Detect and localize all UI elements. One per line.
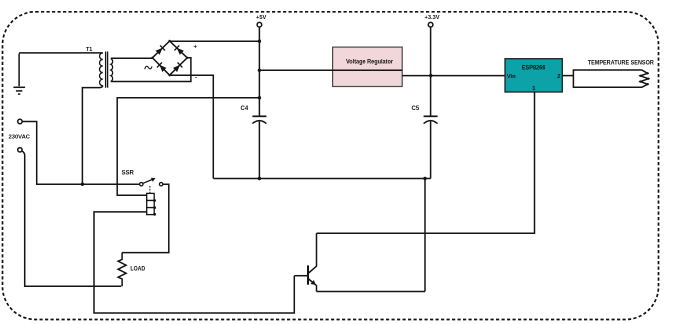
junction	[258, 177, 261, 180]
wire 230VAC live to SSR switch	[22, 122, 139, 185]
wire VR output to ESP Vin	[402, 75, 505, 77]
SSR coil	[147, 193, 156, 215]
node +5V	[256, 15, 266, 27]
svg-text:+: +	[194, 45, 198, 51]
wire bridge plus to +5V rail	[170, 40, 260, 42]
ground	[13, 54, 25, 95]
diode upper-left	[156, 45, 166, 54]
svg-text:Voltage Regulator: Voltage Regulator	[346, 59, 394, 66]
junction	[81, 183, 84, 186]
wire SSR switch to LOAD top	[122, 184, 169, 252]
diode lower-left	[157, 63, 166, 73]
svg-text:2: 2	[557, 74, 560, 80]
wire base return to SSR coil	[94, 212, 294, 313]
transistor Q1	[294, 233, 316, 291]
SSR switch	[122, 171, 163, 194]
junction	[258, 40, 261, 43]
svg-text:Vin: Vin	[507, 74, 516, 80]
svg-text:+3.3V: +3.3V	[425, 15, 440, 21]
svg-text:C4: C4	[241, 106, 249, 112]
junction	[429, 74, 432, 77]
node +3.3V	[425, 15, 440, 27]
wire emitter to down-tap	[317, 291, 426, 293]
diode upper-right	[174, 45, 184, 54]
junction	[423, 177, 426, 180]
wire T1 primary bottom to AC line	[82, 86, 102, 185]
diode lower-right	[173, 63, 182, 73]
svg-text:LOAD: LOAD	[130, 265, 145, 272]
wire +5V rail	[258, 27, 260, 116]
wire VR input from +5V rail	[259, 69, 402, 71]
bridge vertex dots	[151, 40, 188, 77]
AC squiggle	[145, 66, 152, 69]
wire T1 secondary top to bridge AC1	[111, 57, 153, 59]
svg-text:C5: C5	[412, 106, 420, 112]
bridge rectifier	[152, 41, 187, 75]
wire ground rail	[213, 178, 430, 180]
node 230VAC	[9, 119, 31, 152]
wire SSR feed from +5V rail	[117, 98, 259, 196]
wire +3.3V rail	[430, 27, 432, 116]
resistor LOAD	[118, 253, 146, 287]
voltage regulator box	[333, 47, 403, 86]
junction	[258, 96, 261, 99]
temperature sensor	[573, 60, 654, 88]
wire ESP pin1 to collector	[317, 92, 535, 233]
junction	[258, 69, 261, 72]
wire bridge minus to ground rail	[170, 75, 214, 178]
wire 230VAC neutral to LOAD bottom	[22, 151, 121, 286]
capacitor C5	[412, 106, 438, 179]
svg-text:+5V: +5V	[256, 15, 266, 21]
svg-text:-: -	[195, 76, 197, 82]
wire ground to T1 primary top	[19, 52, 103, 54]
wire ESP pin2 to sensor	[562, 75, 573, 77]
ESP8266 U1	[505, 59, 562, 92]
wire T1 secondary bottom to bridge AC2	[111, 58, 191, 82]
svg-text:TEMPERATURE SENSOR: TEMPERATURE SENSOR	[588, 60, 654, 67]
transformer T1	[100, 52, 113, 88]
svg-text:230VAC: 230VAC	[9, 134, 31, 140]
svg-text:T1: T1	[86, 47, 92, 53]
svg-text:SSR: SSR	[122, 171, 135, 177]
wire down-tap to emitter return	[424, 179, 426, 292]
capacitor C4	[241, 106, 267, 179]
svg-text:ESP8266: ESP8266	[522, 66, 546, 72]
